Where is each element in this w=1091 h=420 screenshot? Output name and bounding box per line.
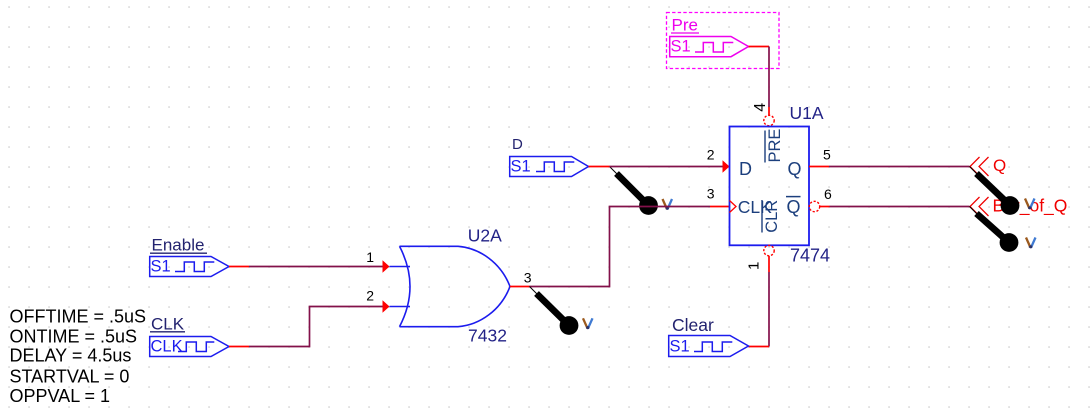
clock chevron U1A pin3 <box>730 201 737 213</box>
wire U2A out to U1A pin3 <box>530 207 711 287</box>
net name Q <box>993 156 1006 175</box>
pin number 3 <box>524 270 532 286</box>
wire CLK to U2A pin2 <box>249 307 383 347</box>
pin stub U1A pin5 <box>809 166 829 168</box>
label Enable <box>152 236 205 255</box>
pin stub Enable <box>229 266 249 268</box>
svg-text:Q: Q <box>787 197 801 217</box>
bubble U1A pin4 <box>764 115 774 125</box>
designator U1A <box>790 103 824 123</box>
designator U2A <box>468 226 502 246</box>
svg-text:2: 2 <box>366 288 374 304</box>
svg-text:Clear: Clear <box>672 315 714 335</box>
bubble U1A pin1 <box>764 245 774 255</box>
pin stub U1A pin3 <box>710 206 730 208</box>
wire Pre to U1A pin4 <box>768 47 770 108</box>
pin stub U1A pin4 <box>768 107 770 115</box>
svg-text:S1: S1 <box>670 338 690 356</box>
label Pre <box>672 16 698 35</box>
or-gate U2A <box>390 246 511 326</box>
svg-text:CLK: CLK <box>151 314 185 333</box>
wire Qbar <box>830 206 970 208</box>
svg-text:OPPVAL = 1: OPPVAL = 1 <box>10 386 111 406</box>
svg-text:U1A: U1A <box>790 103 824 123</box>
pin stub U2A output <box>510 286 530 288</box>
pin arrow U2A pin1 <box>383 260 390 273</box>
pin number 6 <box>824 186 832 202</box>
svg-text:STARTVAL = 0: STARTVAL = 0 <box>10 367 130 387</box>
pin name PRE <box>766 129 784 163</box>
pin stub D <box>589 166 610 168</box>
wire U1A pin1 to Clear <box>768 272 770 347</box>
stimulus DSTM Pre (selected, magenta) <box>670 37 749 57</box>
wire Enable to U2A pin1 <box>249 266 383 268</box>
stimulus DSTM Clear <box>669 336 749 357</box>
svg-text:CLR: CLR <box>763 200 781 233</box>
svg-text:DELAY = 4.5us: DELAY = 4.5us <box>10 346 132 366</box>
stimulus parameter text block <box>10 307 147 407</box>
svg-text:7432: 7432 <box>468 326 507 346</box>
svg-text:Q: Q <box>788 159 802 179</box>
pin name CLR <box>763 200 781 233</box>
svg-text:1: 1 <box>746 262 763 270</box>
svg-text:1: 1 <box>366 249 374 265</box>
probe V on wire D <box>610 167 673 215</box>
pin number 2 <box>707 147 715 163</box>
svg-text:PRE: PRE <box>766 129 784 163</box>
svg-text:S1: S1 <box>151 258 171 276</box>
svg-text:U2A: U2A <box>468 226 502 246</box>
pin number 5 <box>823 147 831 163</box>
pin arrow U2A pin2 <box>383 300 390 313</box>
label Clear <box>672 315 714 335</box>
pin name D <box>739 159 752 179</box>
wire Q <box>829 166 970 168</box>
probe V on net Q <box>970 167 1035 215</box>
pin stub Pre <box>749 46 770 48</box>
svg-text:D: D <box>739 159 752 179</box>
pin stub U1A pin1 <box>768 256 770 272</box>
value 7432 <box>468 326 507 346</box>
net connector Bar_of_Q <box>970 197 989 216</box>
svg-text:Q: Q <box>993 156 1006 175</box>
net name Bar_of_Q <box>993 196 1068 217</box>
net connector Q <box>970 157 989 176</box>
pin number 3 <box>707 186 715 202</box>
pin number 1 <box>746 262 763 270</box>
wire D to U1A pin2 <box>610 166 723 168</box>
pin stub Clear <box>749 346 770 348</box>
svg-text:Enable: Enable <box>152 236 205 255</box>
svg-text:D: D <box>512 136 523 153</box>
svg-text:5: 5 <box>823 147 831 163</box>
pin arrow U1A pin2 <box>723 160 730 173</box>
pin stub U1A pin6 <box>820 206 830 208</box>
svg-text:2: 2 <box>707 147 715 163</box>
pin number 1 <box>366 249 374 265</box>
svg-text:S1: S1 <box>511 158 531 176</box>
pin number 2 <box>366 288 374 304</box>
stimulus DSTM Enable <box>150 257 229 277</box>
pin name Qbar <box>787 197 801 217</box>
flip-flop U1A body <box>730 127 810 246</box>
svg-text:3: 3 <box>524 270 532 286</box>
stimulus DSTM CLK <box>150 337 229 357</box>
svg-text:7474: 7474 <box>790 246 830 266</box>
pin stub CLK <box>229 346 249 348</box>
label D <box>512 136 523 153</box>
pin name CLK <box>738 197 772 217</box>
svg-text:3: 3 <box>707 186 715 202</box>
svg-text:Pre: Pre <box>672 16 698 35</box>
probe V on wire U2A out <box>530 287 593 335</box>
svg-text:ONTIME = .5uS: ONTIME = .5uS <box>10 327 138 347</box>
selection box <box>667 13 780 69</box>
pin name Q <box>788 159 802 179</box>
value 7474 <box>790 246 830 266</box>
svg-text:OFFTIME = .5uS: OFFTIME = .5uS <box>10 307 147 327</box>
pin number 4 <box>752 103 769 112</box>
probe V on net Bar_of_Q <box>970 207 1036 252</box>
svg-text:4: 4 <box>752 103 769 112</box>
label CLK <box>151 314 185 333</box>
svg-text:S1: S1 <box>671 38 691 56</box>
stimulus DSTM D <box>510 157 589 177</box>
svg-text:6: 6 <box>824 186 832 202</box>
svg-text:CLK: CLK <box>151 338 183 356</box>
bubble U1A pin6 <box>809 201 819 211</box>
